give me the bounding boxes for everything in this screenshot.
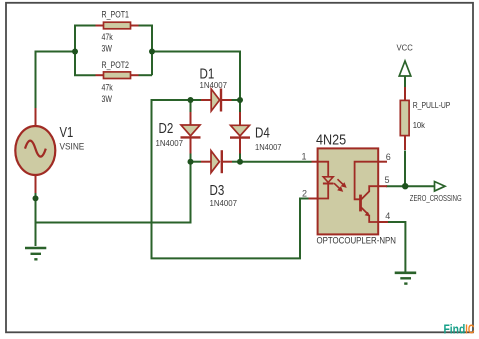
node: below V1: [33, 195, 39, 201]
svg-text:47k: 47k: [102, 32, 113, 43]
diode D4: [230, 112, 250, 154]
svg-text:R_POT2: R_POT2: [102, 60, 130, 71]
svg-text:V1: V1: [60, 125, 74, 141]
svg-text:10k: 10k: [413, 120, 426, 130]
wire: resistor node right then down to bridge top-right node: [152, 52, 240, 101]
opto pin 4 stub: [378, 221, 388, 223]
svg-text:4N25: 4N25: [316, 133, 346, 149]
svg-text:D4: D4: [255, 125, 270, 141]
wire: V1 bottom to ground: [35, 192, 37, 246]
opto pin 5 stub: [378, 185, 387, 187]
svg-text:3W: 3W: [102, 43, 112, 54]
svg-text:1N4007: 1N4007: [200, 80, 228, 90]
svg-text:1: 1: [302, 152, 307, 162]
wire: VCC symbol down to R_PULL-UP: [404, 61, 406, 87]
svg-text:47k: 47k: [102, 83, 113, 94]
wire: R_POT2 right green lead: [139, 74, 153, 76]
wire: V1 top up and right to resistor network: [36, 52, 76, 109]
wire: R_POT1 left green lead: [74, 25, 96, 27]
opto internal LED: [318, 162, 334, 199]
node: resistors right junction: [149, 49, 155, 55]
svg-text:R_PULL-UP: R_PULL-UP: [413, 100, 451, 110]
svg-text:OPTOCOUPLER-NPN: OPTOCOUPLER-NPN: [317, 236, 397, 246]
svg-text:3W: 3W: [102, 94, 112, 105]
voltage source V1: [15, 108, 55, 193]
optocoupler U1 4N25 body: [318, 148, 379, 234]
diode D3: [201, 150, 232, 173]
resistor R_POT2: [96, 72, 139, 79]
wire: D4 top green stub: [239, 100, 241, 112]
wire: D2 top green stub: [190, 100, 192, 112]
resistor R_POT1: [96, 22, 139, 29]
svg-text:D2: D2: [159, 121, 174, 137]
resistor R_PULL-UP: [400, 87, 409, 150]
wire: bridge top rail green stubs: [191, 99, 202, 101]
svg-text:6: 6: [386, 152, 391, 162]
wire: D4 bottom green stub: [239, 153, 241, 162]
node: bridge bottom-right: [237, 159, 243, 165]
wire: bridge bottom-right node to optocoupler pin 1: [240, 161, 312, 163]
opto pin 2 stub: [309, 198, 319, 200]
diode D2: [181, 112, 201, 154]
svg-text:VSINE: VSINE: [60, 142, 85, 152]
svg-text:1N4007: 1N4007: [156, 138, 184, 148]
svg-text:Find: Find: [444, 322, 466, 337]
opto internal phototransistor: [355, 162, 378, 222]
wire: bridge bottom rail green stubs: [191, 161, 202, 163]
wire: bridge top-left node left, down, right to optocoupler pin 2: [152, 100, 309, 258]
svg-text:IC: IC: [465, 322, 475, 337]
terminal arrow ZERO_CROSSING: [435, 182, 446, 192]
svg-text:ZERO_CROSSING: ZERO_CROSSING: [410, 193, 462, 203]
wire: opto pin 5 to ZERO_CROSSING arrow: [386, 185, 435, 187]
wire: bridge bottom-left node down and left to V1 ground line: [36, 162, 191, 223]
node: bridge bottom-left: [188, 159, 194, 165]
opto pin 1 stub: [312, 161, 319, 163]
node: bridge top-left: [188, 97, 194, 103]
node: bridge top-right: [237, 97, 243, 103]
wire: opto pin 4 right and down to ground: [387, 222, 405, 272]
svg-text:1N4007: 1N4007: [210, 198, 238, 208]
node: resistors left junction: [72, 49, 78, 55]
svg-text:4: 4: [385, 211, 390, 221]
power symbol VCC: [399, 61, 411, 76]
opto LED light arrows: [334, 179, 346, 191]
svg-text:R_POT1: R_POT1: [102, 10, 130, 21]
ground below V1: [25, 248, 46, 259]
wire: R_POT2 left green lead: [74, 74, 96, 76]
svg-text:2: 2: [302, 189, 307, 199]
opto pin 6 stub: [378, 161, 387, 163]
wire: R_PULL-UP bottom to pin5 node: [404, 151, 406, 187]
ground below opto pin 4: [395, 273, 417, 284]
wire: R_POT1 right green lead: [139, 25, 153, 27]
svg-text:5: 5: [385, 175, 390, 185]
wire: D2 bottom green stub: [190, 153, 192, 162]
wire: left vertical joining R_POT1 and R_POT2 left ends: [74, 26, 76, 76]
svg-text:1N4007: 1N4007: [255, 142, 282, 152]
svg-text:D3: D3: [210, 183, 225, 199]
node: pin5 / pull-up junction: [402, 183, 408, 189]
wire: right vertical joining resistor right ends: [151, 25, 153, 76]
svg-text:VCC: VCC: [397, 42, 413, 52]
diode D1: [201, 89, 232, 112]
